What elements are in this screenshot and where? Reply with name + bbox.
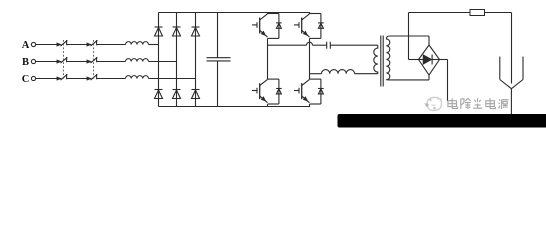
svg-text:B: B [22,57,29,68]
svg-text:A: A [22,40,30,51]
svg-text:C: C [22,74,30,85]
